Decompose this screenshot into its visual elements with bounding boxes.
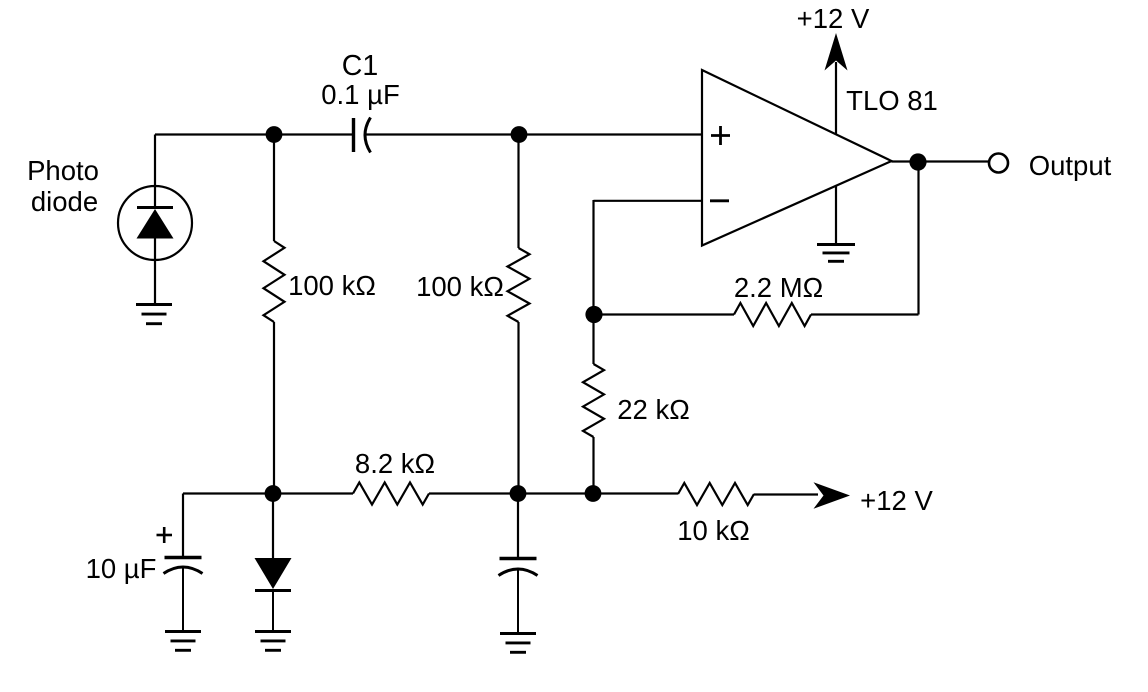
svg-text:diode: diode bbox=[31, 186, 98, 217]
resistor R6 10 kOhm bbox=[678, 483, 754, 505]
wire +12V supply stub on op-amp bbox=[835, 62, 837, 135]
capacitor C3 bbox=[499, 494, 538, 634]
resistor R4 22 kOhm bbox=[583, 315, 604, 494]
arrowhead +12V up bbox=[825, 33, 848, 71]
ground (op-amp) bbox=[817, 243, 855, 246]
resistor R2 100 kOhm (middle vertical) bbox=[508, 135, 530, 494]
wire output bbox=[892, 160, 990, 162]
wire op-amp ground stub bbox=[835, 186, 837, 245]
svg-text:TLO 81: TLO 81 bbox=[846, 85, 938, 116]
svg-text:+12 V: +12 V bbox=[860, 485, 933, 516]
node output junction dot bbox=[909, 153, 926, 170]
wire bottom rail left segment bbox=[183, 492, 353, 494]
node feedback junction dot bbox=[585, 306, 602, 323]
svg-text:100 kΩ: 100 kΩ bbox=[416, 271, 504, 302]
photodiode D1 bbox=[118, 135, 192, 305]
wire bottom rail right segment to supply bbox=[754, 493, 818, 495]
ground (photodiode) bbox=[136, 303, 172, 306]
svg-text:C1: C1 bbox=[342, 50, 378, 82]
wire feedback horizontal left segment bbox=[594, 313, 735, 315]
resistor R3 2.2 MOhm feedback bbox=[734, 303, 811, 326]
node bottom rail / R4 junction dot bbox=[585, 485, 602, 502]
wire feedback vertical from output bbox=[917, 162, 919, 315]
op-amp + input symbol bbox=[711, 126, 730, 145]
node A junction dot (top rail / R1) bbox=[266, 126, 283, 143]
svg-text:10 kΩ: 10 kΩ bbox=[677, 515, 750, 546]
svg-text:22 kΩ: 22 kΩ bbox=[617, 394, 690, 425]
wire top rail left segment bbox=[155, 133, 353, 135]
label Photo diode bbox=[27, 155, 99, 217]
svg-text:10 µF: 10 µF bbox=[86, 553, 157, 584]
wire top rail right segment (C1 to op-amp + input) bbox=[366, 133, 703, 135]
op-amp - input symbol bbox=[710, 199, 729, 202]
op-amp U1 triangle bbox=[702, 70, 892, 246]
capacitor C1 bbox=[354, 118, 371, 153]
output terminal open circle bbox=[989, 154, 1008, 173]
svg-text:+12 V: +12 V bbox=[797, 3, 870, 34]
wire bottom rail middle segment bbox=[429, 492, 678, 494]
ground (D2) bbox=[255, 630, 291, 633]
svg-text:0.1 µF: 0.1 µF bbox=[321, 79, 400, 110]
node bottom rail / R1 junction dot bbox=[265, 485, 282, 502]
node bottom rail / R2 junction dot bbox=[510, 485, 527, 502]
ground (C2) bbox=[165, 630, 201, 633]
capacitor C2 10 uF bbox=[164, 494, 203, 632]
polarity + sign (C2) bbox=[157, 527, 173, 543]
svg-text:Photo: Photo bbox=[27, 155, 99, 186]
wire feedback horizontal right segment bbox=[811, 313, 919, 315]
svg-text:2.2 MΩ: 2.2 MΩ bbox=[734, 272, 823, 303]
node B junction dot (top rail / R2) bbox=[511, 126, 528, 143]
svg-text:100 kΩ: 100 kΩ bbox=[288, 270, 376, 301]
wire inverting input net bbox=[594, 200, 704, 315]
svg-text:Output: Output bbox=[1029, 150, 1112, 181]
resistor R5 8.2 kOhm bbox=[353, 483, 429, 505]
arrowhead +12V right bbox=[814, 482, 851, 509]
resistor R1 100 kOhm (left vertical) bbox=[264, 135, 285, 494]
svg-text:8.2 kΩ: 8.2 kΩ bbox=[355, 448, 435, 479]
diode D2 bbox=[255, 494, 292, 632]
ground (C3) bbox=[500, 632, 536, 635]
